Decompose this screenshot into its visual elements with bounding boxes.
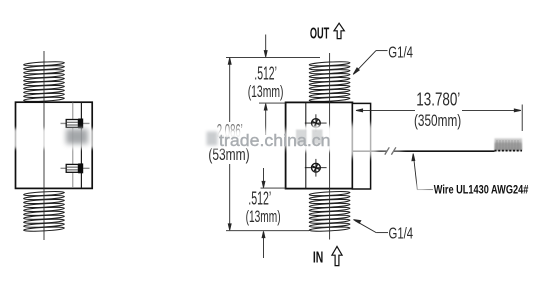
svg-text:G1/4: G1/4 <box>389 225 414 242</box>
svg-text:Wire UL1430 AWG24#: Wire UL1430 AWG24# <box>434 183 529 197</box>
watermark blur washes <box>8 123 426 197</box>
label Wire UL1430 AWG24# with leader <box>412 154 433 190</box>
terminal T2 <box>61 163 90 173</box>
dimension .512in (13mm) top <box>226 35 320 136</box>
label G1/4 top with leader <box>353 51 387 75</box>
left view body <box>16 102 93 188</box>
left view inner terminal lines <box>73 103 82 189</box>
left view centerline <box>43 51 45 240</box>
left view top thread G1/4 <box>24 61 65 102</box>
label G1/4 bottom with leader <box>354 220 389 233</box>
OUT flow arrow <box>334 23 344 38</box>
svg-text:.512’: .512’ <box>254 64 277 84</box>
svg-text:IN: IN <box>313 249 323 266</box>
terminal T1 <box>61 119 90 129</box>
svg-text:(13mm): (13mm) <box>248 83 284 101</box>
front view inner edge line <box>305 103 307 189</box>
svg-text:.512’: .512’ <box>248 189 271 209</box>
svg-text:trade.china.cn: trade.china.cn <box>219 131 331 150</box>
svg-text:OUT: OUT <box>310 25 330 42</box>
svg-text:13.780’: 13.780’ <box>416 89 460 109</box>
screw S2 <box>305 159 327 177</box>
watermark logo smudge <box>207 132 218 146</box>
front view centerline <box>329 53 331 240</box>
svg-text:(350mm): (350mm) <box>414 112 461 130</box>
front view body <box>286 102 353 188</box>
wire stripped end <box>495 138 523 150</box>
watermark faint logo characters <box>296 130 323 145</box>
front view bottom thread G1/4 <box>309 191 350 232</box>
dimension .512in (13mm) bottom <box>226 168 309 258</box>
wire <box>353 150 495 152</box>
dimension 13.780in (350mm) wire length <box>356 105 522 132</box>
watermark text trade.china.cn <box>219 131 331 150</box>
wire break symbol <box>385 147 396 154</box>
svg-text:(13mm): (13mm) <box>246 208 281 226</box>
left view bottom thread G1/4 <box>24 191 65 232</box>
front view top thread G1/4 <box>309 61 350 102</box>
IN flow arrow <box>332 246 342 265</box>
screw S1 <box>305 114 327 132</box>
svg-text:G1/4: G1/4 <box>388 45 413 62</box>
terminal plate <box>352 103 370 189</box>
dimension 2.086in (53mm) overall <box>228 58 231 230</box>
